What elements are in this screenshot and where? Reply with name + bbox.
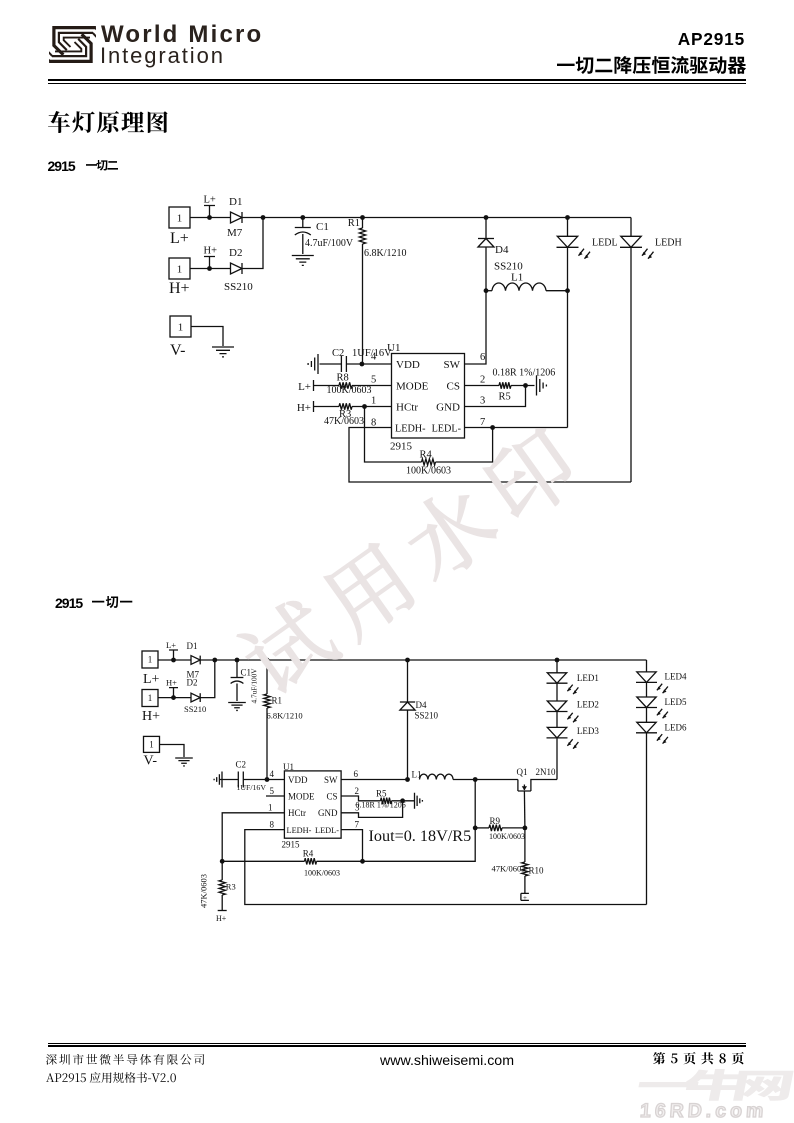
footer page number 第 5 页 共 8 页 xyxy=(651,1050,746,1066)
wire rail to D4 cathode xyxy=(485,218,487,239)
junction node L+ xyxy=(171,658,176,663)
junction R4/LEDL- xyxy=(360,859,365,864)
wire LEDH- return to pin 8 xyxy=(349,428,631,483)
LED LED1 xyxy=(547,673,579,694)
wire HCtr pin 1 left xyxy=(222,813,284,862)
transistor Q1 xyxy=(518,784,531,792)
watermark 16RD.com xyxy=(639,1100,768,1123)
junction R5/GND xyxy=(400,798,405,803)
svg-text:6.8K/1210: 6.8K/1210 xyxy=(267,711,303,721)
junction C1 tap xyxy=(235,658,240,663)
wire LEDH- pin 8 bottom return xyxy=(245,830,647,905)
svg-text:C2: C2 xyxy=(236,760,247,770)
svg-text:C2: C2 xyxy=(332,348,344,359)
wire LEDL- pin 7 to LEDL cathode xyxy=(465,427,568,429)
svg-text:C1: C1 xyxy=(316,221,329,233)
svg-text:100K/0603: 100K/0603 xyxy=(304,869,340,878)
svg-text:R5: R5 xyxy=(376,789,387,799)
wire CS pin 2 to R5 xyxy=(465,385,500,387)
svg-text:L1: L1 xyxy=(511,272,523,284)
svg-text:D4: D4 xyxy=(495,244,509,256)
svg-text:R10: R10 xyxy=(529,866,545,876)
wire MODE pin 5 stub xyxy=(266,795,284,797)
connector J3 (V-) box xyxy=(144,736,160,752)
footer company 深圳市世微半导体有限公司 xyxy=(44,1052,206,1067)
svg-text:U1: U1 xyxy=(283,762,294,772)
wire to L1 xyxy=(486,290,492,292)
header double rule xyxy=(48,79,747,81)
svg-text:VDD: VDD xyxy=(288,775,308,785)
svg-text:L+: L+ xyxy=(298,381,311,393)
wire VIN rail top xyxy=(242,217,631,219)
watermark 一牛网 xyxy=(633,1068,794,1103)
wire R9 to Q1 source node xyxy=(502,827,525,829)
wire SW pin6 riser xyxy=(465,291,487,364)
ground (R5, rotated) xyxy=(415,793,423,809)
svg-text:1: 1 xyxy=(149,740,154,750)
diode D1 xyxy=(231,212,243,223)
node H+ stub xyxy=(166,678,178,698)
wire Q1 source down xyxy=(523,791,526,828)
wire J1 to D1 anode xyxy=(190,217,231,219)
ground (V-) xyxy=(212,347,234,357)
svg-text:7: 7 xyxy=(355,819,360,829)
footer doc AP2915 应用规格书-V2.0 xyxy=(44,1070,178,1085)
wire L1 node down to LEDL- pin 7 xyxy=(567,291,569,428)
svg-text:V-: V- xyxy=(170,342,185,359)
connector J2 (H+) box xyxy=(142,690,158,707)
junction SW/L1 xyxy=(484,288,489,293)
wire to R10 xyxy=(524,828,526,862)
resistor R8 xyxy=(339,382,352,388)
wire R4 row left xyxy=(222,860,304,862)
capacitor C2 xyxy=(341,356,346,372)
svg-text:LED2: LED2 xyxy=(577,700,599,710)
port L+ (R10 bottom) xyxy=(521,893,529,902)
wire R5 to ground xyxy=(392,800,415,802)
svg-text:1: 1 xyxy=(177,212,183,224)
svg-text:LEDH-: LEDH- xyxy=(395,424,426,435)
svg-text:SW: SW xyxy=(324,775,338,785)
svg-text:L+: L+ xyxy=(166,640,176,650)
wire rail corner to LED4 xyxy=(646,660,648,672)
wire LED1 to LED2 xyxy=(556,683,558,701)
svg-text:VDD: VDD xyxy=(396,359,420,371)
node L+ stub (R8) xyxy=(313,380,315,391)
svg-text:LED3: LED3 xyxy=(577,726,599,736)
logo text Integration xyxy=(100,43,225,69)
wire to R3 xyxy=(221,861,223,880)
svg-text:HCtr: HCtr xyxy=(396,402,418,414)
junction L1/LEDL xyxy=(565,288,570,293)
page title 车灯原理图 xyxy=(46,109,170,135)
svg-text:100K/0603: 100K/0603 xyxy=(327,385,372,396)
diode D2 xyxy=(231,263,243,274)
junction LED string 1 tap xyxy=(555,658,560,663)
wire CS pin 2 to R5 xyxy=(341,796,380,801)
wire R1 to VDD node xyxy=(362,244,364,364)
wire Q1 drain drop xyxy=(517,780,519,784)
subtitle 2915 一切二 digits xyxy=(48,158,75,174)
subtitle 2915 一切二 cjk xyxy=(84,158,120,173)
wire GND pin 3 to R5 node xyxy=(341,801,403,818)
ground (C1) xyxy=(228,703,246,711)
svg-text:H+: H+ xyxy=(204,246,218,257)
resistor R1 xyxy=(359,228,365,244)
svg-text:SS210: SS210 xyxy=(415,711,439,721)
svg-text:LED6: LED6 xyxy=(665,723,687,733)
inductor L1 xyxy=(492,283,546,291)
junction D4 tap xyxy=(484,215,489,220)
svg-text:6: 6 xyxy=(354,769,359,779)
junction HCtr/R4 xyxy=(362,404,367,409)
junction VDD node xyxy=(360,362,365,367)
node H+ stub xyxy=(204,246,218,269)
wire LEDH cathode down xyxy=(630,247,632,482)
svg-text:4: 4 xyxy=(270,769,275,779)
capacitor C1 xyxy=(295,228,311,236)
wire LEDL- pin 7 down xyxy=(341,830,362,862)
LED LED3 xyxy=(547,727,579,748)
connector J3 (V-) box xyxy=(170,316,191,337)
svg-text:V-: V- xyxy=(144,754,158,769)
LED LEDL xyxy=(557,236,591,258)
svg-text:5: 5 xyxy=(371,375,376,386)
junction C1 tap xyxy=(300,215,305,220)
svg-text:M7: M7 xyxy=(227,227,243,239)
resistor R4 xyxy=(422,459,436,465)
wire LED6 down to bottom return xyxy=(646,733,648,905)
connector J1 (L+) box xyxy=(169,207,190,228)
wire D2 cathode up to VIN rail xyxy=(242,218,263,269)
wire J3 to ground xyxy=(160,745,185,758)
diode D4 xyxy=(400,702,415,710)
svg-text:R5: R5 xyxy=(499,392,511,403)
junction node L+ xyxy=(207,215,212,220)
resistor R3 xyxy=(219,880,225,895)
wire R5 to ground xyxy=(511,385,535,387)
capacitor C1 xyxy=(231,678,244,684)
svg-text:7: 7 xyxy=(480,417,485,428)
svg-text:2915: 2915 xyxy=(390,441,413,453)
svg-text:1UF/16V: 1UF/16V xyxy=(237,783,267,792)
svg-text:2N10: 2N10 xyxy=(536,767,556,777)
wire L1 to LEDL node xyxy=(546,290,568,292)
svg-text:5: 5 xyxy=(270,786,275,796)
wire C2 to VDD pin 4 xyxy=(346,363,391,365)
svg-text:L+: L+ xyxy=(204,195,216,206)
svg-text:2: 2 xyxy=(355,786,360,796)
junction D4 tap xyxy=(405,658,410,663)
schematic 1 (2915 一切二) xyxy=(0,0,794,520)
wire J2 to D2 anode xyxy=(158,697,191,699)
svg-text:LEDL-: LEDL- xyxy=(432,424,462,435)
svg-text:100K/0603: 100K/0603 xyxy=(406,466,451,477)
wire C2 to VDD pin 4 xyxy=(243,779,284,781)
svg-text:1UF/16V: 1UF/16V xyxy=(352,348,392,359)
svg-text:LED5: LED5 xyxy=(665,697,687,707)
resistor R1 xyxy=(264,694,270,708)
wire J3 to ground xyxy=(191,327,223,347)
svg-text:SW: SW xyxy=(444,359,461,371)
svg-text:1: 1 xyxy=(268,803,273,813)
wire to C1 xyxy=(302,218,304,228)
LED LEDH xyxy=(620,236,654,258)
wire rail to LED1 xyxy=(556,660,558,673)
connector J1 (L+) box xyxy=(142,651,158,668)
resistor R4 xyxy=(305,858,317,864)
wire rail corner to LEDH anode xyxy=(630,218,632,237)
svg-text:MODE: MODE xyxy=(288,792,315,802)
wire SW pin 6 to D4 node xyxy=(341,779,407,781)
svg-text:H+: H+ xyxy=(297,402,311,414)
footer url www.shiweisemi.com xyxy=(380,1053,514,1069)
svg-text:H+: H+ xyxy=(142,709,160,724)
ground (V-) xyxy=(175,758,193,766)
LED LED6 xyxy=(636,722,668,743)
wire J2 to D2 anode xyxy=(190,268,231,270)
wire R3 to HCtr pin 1 xyxy=(352,406,392,408)
svg-text:LEDL-: LEDL- xyxy=(315,826,339,835)
wire L+ to R8 xyxy=(314,385,340,387)
svg-text:Q1: Q1 xyxy=(517,767,528,777)
junction R5/GND xyxy=(523,383,528,388)
ground (C1) xyxy=(292,256,314,266)
junction R4/LEDL- xyxy=(490,425,495,430)
svg-text:LED4: LED4 xyxy=(665,672,687,682)
diode D2 xyxy=(191,693,200,702)
svg-text:2915: 2915 xyxy=(282,840,301,850)
logo text World Micro xyxy=(101,21,263,49)
svg-text:LEDL: LEDL xyxy=(592,238,618,249)
svg-text:1: 1 xyxy=(148,693,153,703)
svg-text:CS: CS xyxy=(326,792,337,802)
svg-text:0.18R 1%/1206: 0.18R 1%/1206 xyxy=(493,368,556,379)
junction R1 tap xyxy=(265,658,270,663)
svg-text:+: + xyxy=(523,894,527,902)
trial watermark 试用水印 xyxy=(230,418,588,706)
svg-text:47K/0603: 47K/0603 xyxy=(492,864,526,874)
svg-text:2: 2 xyxy=(480,375,485,386)
wire rail to LEDL anode xyxy=(567,218,569,237)
resistor R5 xyxy=(499,382,511,388)
svg-text:R9: R9 xyxy=(490,816,501,826)
wire LEDL cathode to L1 xyxy=(567,247,569,290)
svg-text:6: 6 xyxy=(480,352,485,363)
node L+ stub xyxy=(204,195,216,218)
junction LEDL tap xyxy=(565,215,570,220)
svg-text:H+: H+ xyxy=(166,678,177,688)
LED LED5 xyxy=(636,697,668,718)
wire GND pin 3 to R5 node xyxy=(465,386,526,407)
diode D4 xyxy=(478,239,494,248)
svg-text:6.8K/1210: 6.8K/1210 xyxy=(364,248,407,259)
svg-text:LEDH-: LEDH- xyxy=(287,826,312,835)
inductor L1 xyxy=(420,774,454,779)
junction L1 output xyxy=(473,777,478,782)
svg-text:47K/0603: 47K/0603 xyxy=(324,416,364,427)
wire D2 cathode to rail xyxy=(200,660,215,698)
svg-text:MODE: MODE xyxy=(396,381,429,393)
wire rail to D4 cathode xyxy=(407,660,409,702)
resistor R3 xyxy=(339,403,352,409)
wire R4 to LEDL- node xyxy=(436,428,493,463)
svg-text:R3: R3 xyxy=(226,882,236,892)
svg-text:SS210: SS210 xyxy=(224,281,253,293)
wire D4 anode to SW row xyxy=(407,710,409,779)
wire HCtr down to R4 xyxy=(365,407,422,463)
svg-text:8: 8 xyxy=(270,819,275,829)
junction R9/R10 xyxy=(523,826,528,831)
svg-text:H+: H+ xyxy=(169,280,190,297)
svg-text:3: 3 xyxy=(480,396,485,407)
junction node H+ xyxy=(171,695,176,700)
svg-text:4.7uF/100V: 4.7uF/100V xyxy=(305,238,354,249)
svg-text:8: 8 xyxy=(371,418,376,429)
svg-text:HCtr: HCtr xyxy=(288,808,306,818)
svg-text:D2: D2 xyxy=(229,247,242,259)
svg-text:100K/0603: 100K/0603 xyxy=(489,832,525,841)
junction VDD node xyxy=(265,777,270,782)
connector J2 (H+) box xyxy=(169,258,190,279)
port H+ (R3 bottom) xyxy=(216,911,227,924)
svg-text:L+: L+ xyxy=(143,672,160,687)
svg-text:R1: R1 xyxy=(348,218,360,229)
svg-text:R4: R4 xyxy=(420,450,433,461)
svg-text:SS210: SS210 xyxy=(184,704,206,714)
svg-text:GND: GND xyxy=(318,808,338,818)
wire D4 anode to SW node xyxy=(485,247,487,291)
junction node H+ xyxy=(207,266,212,271)
capacitor C2 xyxy=(238,772,243,788)
wire to C1 xyxy=(236,660,238,677)
svg-text:D2: D2 xyxy=(187,678,198,688)
junction R1 tap xyxy=(360,215,365,220)
junction R9 left xyxy=(473,826,478,831)
node H+ stub (R3) xyxy=(313,401,315,412)
svg-text:R4: R4 xyxy=(303,849,314,859)
wire LED2 to LED3 xyxy=(556,712,558,728)
wire LED3 to Q1 xyxy=(556,738,558,780)
svg-text:1: 1 xyxy=(177,263,183,275)
junction D1/D2 xyxy=(212,658,217,663)
svg-text:D1: D1 xyxy=(187,641,198,651)
junction R4/HCtr xyxy=(220,859,225,864)
part number AP2915 xyxy=(545,29,745,50)
ground (C2, rotated) xyxy=(214,772,222,788)
svg-text:R8: R8 xyxy=(337,373,349,384)
wire J1 to D1 anode xyxy=(158,659,191,661)
resistor R5 xyxy=(381,798,392,804)
junction D1/D2 xyxy=(261,215,266,220)
header subtitle 一切二降压恒流驱动器 xyxy=(555,54,748,76)
node L+ stub xyxy=(166,640,178,660)
wire ground to C2 xyxy=(220,779,238,781)
subtitle 2915 一切一 digits xyxy=(55,595,82,611)
wire H+ to R3 xyxy=(314,406,340,408)
LED LED4 xyxy=(636,672,668,693)
wire R10 to L+ port xyxy=(524,876,526,893)
svg-text:H+: H+ xyxy=(216,914,227,923)
svg-text:Iout=0. 18V/R5: Iout=0. 18V/R5 xyxy=(369,827,472,845)
schematic 2 (2915 一切一) xyxy=(0,620,794,1020)
svg-text:L+: L+ xyxy=(170,230,189,247)
logo World Micro S monogram xyxy=(49,23,96,66)
op IC U1 AP2915 box xyxy=(392,354,465,439)
wire to R1 xyxy=(362,218,364,229)
wire R3 to H+ port xyxy=(221,895,223,911)
wire ground to C2 xyxy=(320,363,342,365)
subtitle 2915 一切一 cjk xyxy=(90,594,134,610)
svg-text:D1: D1 xyxy=(229,196,242,208)
resistor R9 xyxy=(489,825,502,831)
svg-text:1: 1 xyxy=(148,655,153,665)
svg-text:47K/0603: 47K/0603 xyxy=(199,874,209,908)
wire R8 to MODE pin 5 xyxy=(352,385,392,387)
LED LED2 xyxy=(547,701,579,722)
svg-text:1: 1 xyxy=(371,396,376,407)
svg-text:LEDH: LEDH xyxy=(655,238,682,249)
junction SW/D4/L1 xyxy=(405,777,410,782)
wire R4 to L1 output xyxy=(317,780,476,862)
wire Q1 to LED3 cathode xyxy=(531,780,557,784)
ground (R5, rotated) xyxy=(537,376,547,396)
resistor R10 xyxy=(522,862,528,876)
svg-text:1: 1 xyxy=(178,321,184,333)
wire LED5 to LED6 xyxy=(646,708,648,723)
wire C1 to ground xyxy=(236,684,238,702)
wire VIN rail top xyxy=(200,659,646,661)
svg-text:D4: D4 xyxy=(416,700,427,710)
wire R1 to VDD node xyxy=(266,708,268,780)
diode D1 xyxy=(191,656,200,665)
ground (C2, rotated) xyxy=(308,354,318,374)
svg-text:0.18R 1%/1206: 0.18R 1%/1206 xyxy=(356,801,406,810)
op IC U1 AP2915 box xyxy=(284,771,341,838)
footer double rule xyxy=(48,1043,746,1044)
wire LED4 to LED5 xyxy=(646,682,648,697)
svg-text:LED1: LED1 xyxy=(577,673,599,683)
wire rail to R1 xyxy=(266,660,268,694)
wire to R9 xyxy=(475,827,489,829)
wire L1 to Q1 xyxy=(453,779,518,781)
svg-text:CS: CS xyxy=(447,381,460,393)
wire C1 to ground xyxy=(302,234,304,254)
svg-text:GND: GND xyxy=(436,402,460,414)
